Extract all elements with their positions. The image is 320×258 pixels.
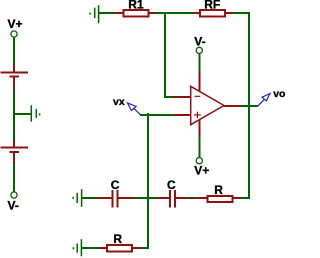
- wire: [82, 197, 98, 199]
- svg-text:vx: vx: [113, 96, 125, 108]
- resistor R1 pin right: [150, 12, 157, 14]
- label V- (op-amp top): [194, 35, 205, 49]
- wire cap to vx rail junction: [134, 197, 157, 199]
- resistor R (mid row) pin right: [233, 197, 241, 199]
- svg-text:R1: R1: [128, 0, 144, 11]
- op-amp plus mark: [194, 112, 201, 118]
- wire to non-inverting input from vx: [140, 114, 174, 116]
- wire R to right rail: [241, 197, 251, 199]
- wire: [81, 247, 98, 249]
- capacitor C (right) pin right: [176, 197, 189, 199]
- label C (left): [111, 178, 120, 192]
- terminal circle V- (op-amp): [196, 47, 202, 53]
- node V+ label: [8, 17, 23, 31]
- capacitor C (left) pin right: [119, 197, 135, 199]
- node vo label: [273, 88, 285, 100]
- op-amp pin (inverting): [174, 96, 192, 98]
- label V+ (op-amp bottom): [194, 163, 209, 177]
- label R1: [128, 0, 144, 11]
- wire RF to right rail: [233, 12, 250, 14]
- resistor RF body: [200, 10, 225, 16]
- ground (left-facing) bottom row: [73, 239, 81, 256]
- wire to inverting input: [164, 96, 174, 98]
- op-amp output pin: [224, 105, 243, 107]
- capacitor C (left) pin left: [98, 197, 112, 199]
- battery V2 pin top: [13, 140, 15, 147]
- wire: [13, 89, 15, 140]
- resistor R1 body: [124, 10, 149, 16]
- terminal circle V-: [11, 192, 17, 198]
- battery V2 pin bottom: [13, 152, 15, 165]
- svg-text:C: C: [111, 178, 120, 192]
- ground (left-facing) C row: [73, 189, 81, 207]
- svg-text:V-: V-: [194, 35, 205, 49]
- node vx arrow: [128, 103, 141, 115]
- resistor R (bottom) body: [107, 245, 132, 251]
- svg-text:V-: V-: [8, 199, 19, 213]
- battery V1 long plate: [1, 72, 29, 74]
- wire R to vx rail: [143, 247, 149, 249]
- svg-text:R: R: [113, 232, 122, 246]
- wire junction rail down to inverting input: [164, 12, 166, 98]
- resistor R (bottom) pin right: [132, 247, 143, 249]
- svg-text:RF: RF: [204, 0, 220, 11]
- node vo arrow: [258, 94, 270, 106]
- battery V2 long plate: [1, 147, 29, 149]
- wire to mid ground: [14, 113, 31, 115]
- capacitor C (right) pin left: [157, 197, 170, 199]
- op-amp V- pin (top): [199, 72, 201, 91]
- label R (mid row): [214, 183, 223, 197]
- wire: [99, 12, 115, 14]
- resistor R (bottom) pin left: [98, 247, 107, 249]
- wire right feedback rail (down to output and bottom R): [248, 12, 250, 199]
- resistor R (mid row) pin left: [195, 197, 208, 199]
- wire output to vo: [242, 105, 258, 107]
- resistor RF pin left: [194, 12, 200, 14]
- wire V- supply: [199, 54, 201, 72]
- label R (bottom): [113, 232, 122, 246]
- node V- label: [8, 199, 19, 213]
- op-amp body: [191, 86, 224, 124]
- capacitor C (left) plates: [113, 190, 118, 208]
- svg-text:V+: V+: [194, 163, 209, 177]
- op-amp pin (non-inverting): [174, 114, 192, 116]
- capacitor C (right) plates: [170, 190, 175, 208]
- terminal circle V+: [11, 31, 17, 37]
- wire V+ supply: [199, 137, 201, 157]
- wire R1 to RF: [156, 12, 194, 14]
- wire: [13, 165, 15, 192]
- resistor R1 pin left: [115, 12, 123, 14]
- ground (left-facing) top row: [90, 5, 99, 23]
- battery V2 short plate: [10, 151, 20, 153]
- svg-text:V+: V+: [8, 17, 23, 31]
- terminal circle V+ (op-amp): [196, 158, 202, 164]
- node vx label: [113, 96, 125, 108]
- battery V1 pin bottom: [13, 77, 15, 90]
- op-amp minus mark: [195, 95, 201, 97]
- wire junction rail vx down to C row and bottom R row: [147, 113, 149, 249]
- label RF: [204, 0, 220, 11]
- svg-text:vo: vo: [273, 88, 285, 100]
- resistor RF pin right: [226, 12, 234, 14]
- wire cap to R: [189, 197, 195, 199]
- svg-text:R: R: [214, 183, 223, 197]
- resistor R (mid row) body: [208, 196, 233, 202]
- battery V1 pin top: [13, 65, 15, 73]
- wire: [13, 37, 15, 65]
- svg-text:C: C: [167, 178, 176, 192]
- battery V1 short plate: [10, 76, 20, 78]
- ground (right-facing) at battery midpoint: [31, 105, 39, 121]
- label C (right): [167, 178, 176, 192]
- op-amp V+ pin (bottom): [199, 120, 201, 137]
